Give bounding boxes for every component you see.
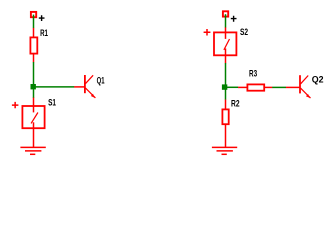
svg-text:Q1: Q1 [97,76,105,86]
switch S2 top contact [225,32,227,39]
transistor Q1 collector [85,75,93,83]
wire P2 to S2 [225,14,227,27]
node A junction [31,84,36,89]
switch S2 lever [224,39,230,50]
pin R1 bottom [33,54,35,62]
transistor Q2 collector [301,76,309,84]
pin S2 bottom [225,56,227,63]
pin Q2 base [286,86,300,88]
wire node B to R3 [227,86,238,88]
svg-text:S2: S2 [240,27,248,37]
switch S1 bottom contact [33,122,35,129]
node B junction [222,84,227,89]
plus label of P2 [231,16,237,22]
transistor Q1 emitter [85,88,95,98]
wire P1 to R1 [33,15,35,29]
pin Q1 base [74,86,85,88]
pin R2 top [225,100,227,110]
plus polarity of S2 [204,29,211,36]
resistor R2 [222,109,228,124]
terminal P2 (+) right [223,11,228,16]
terminal P1 (+) left [31,12,36,17]
resistor R3 [247,84,264,90]
plus polarity of S1 [12,102,19,108]
wire node A to Q1 base [36,86,75,88]
resistor R1 [30,37,37,53]
plus label of P1 [39,15,45,21]
ground left [20,147,45,154]
transistor Q2 emitter arrow [306,94,310,98]
pin S2 top [225,27,227,32]
pin R1 top [33,28,35,38]
wire S2 to node B [225,63,227,85]
wire R3 to Q2 base [272,86,286,88]
wire R1 to node A [33,62,35,85]
pin R3 right [264,86,272,88]
switch S1 lever [31,113,38,124]
pin R3 left [238,86,247,88]
transistor Q1 emitter arrow [91,94,95,98]
transistor Q1 bar [84,75,86,93]
pin S1 top [33,98,35,106]
switch S2 bottom contact [225,49,227,57]
svg-text:R2: R2 [231,99,240,109]
transistor Q2 bar [299,75,301,93]
wire node A to S1 [33,89,35,98]
svg-text:Q2: Q2 [312,75,324,85]
pin R2 to ground [225,124,227,147]
ground right [212,147,237,154]
wire node B to R2 [225,89,227,99]
switch S2 box [214,32,236,55]
transistor Q2 emitter [301,88,311,98]
svg-text:R1: R1 [40,28,48,38]
svg-text:R3: R3 [249,69,257,79]
switch S1 top contact [33,106,35,113]
pin S1 to ground [33,129,35,148]
switch S1 box [22,106,44,128]
svg-text:S1: S1 [48,98,56,108]
